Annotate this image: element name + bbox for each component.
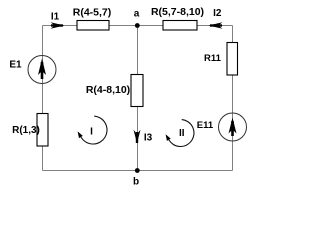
- svg-text:I2: I2: [213, 8, 222, 19]
- node b: [133, 168, 140, 187]
- svg-text:R(1,3): R(1,3): [12, 125, 40, 136]
- wire left branch: [42, 26, 44, 171]
- source E1: [9, 56, 56, 84]
- svg-text:II: II: [179, 128, 185, 139]
- source E11: [197, 113, 247, 141]
- resistor R(4-5,7): [73, 6, 112, 30]
- loop I: [78, 116, 107, 144]
- wire top right (a to right corner): [137, 25, 233, 27]
- wire right branch: [232, 26, 234, 171]
- node a: [134, 8, 140, 28]
- resistor R(5,7-8,10): [151, 6, 204, 30]
- svg-text:R(5,7-8,10): R(5,7-8,10): [151, 6, 204, 18]
- svg-text:I: I: [90, 127, 93, 138]
- loop II: [166, 120, 194, 147]
- svg-text:R(4-5,7): R(4-5,7): [73, 6, 112, 18]
- svg-text:R(4-8,10): R(4-8,10): [86, 84, 130, 96]
- resistor R(1,3): [12, 114, 48, 147]
- current arrow I2: [209, 8, 223, 29]
- current arrow I1: [51, 12, 65, 29]
- current arrow I3: [134, 130, 153, 144]
- svg-text:I1: I1: [51, 12, 60, 23]
- wire middle branch: [137, 26, 139, 171]
- wire bottom: [43, 170, 233, 172]
- svg-text:R11: R11: [204, 53, 222, 64]
- resistor R(4-8,10): [86, 75, 143, 107]
- svg-text:E1: E1: [9, 60, 22, 71]
- resistor R11: [204, 43, 237, 76]
- svg-text:a: a: [134, 8, 140, 19]
- svg-text:b: b: [133, 176, 139, 187]
- svg-text:E11: E11: [197, 120, 214, 131]
- svg-text:I3: I3: [144, 133, 153, 144]
- wire top left (a to left corner): [43, 25, 138, 27]
